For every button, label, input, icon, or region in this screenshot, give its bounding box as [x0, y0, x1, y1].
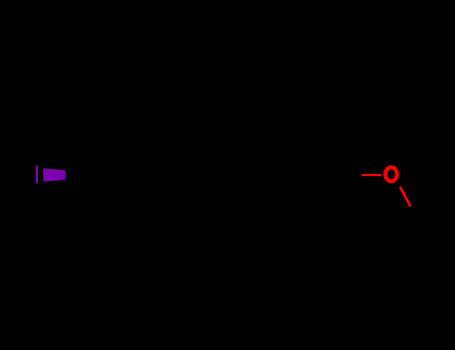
bond ring-O (oxygen half, red): [362, 174, 381, 176]
wedge bond C-I (iodine half, purple): [43, 168, 65, 182]
bond O-CH3 (oxygen half, red): [400, 187, 410, 207]
iodine atom label I: [36, 166, 38, 184]
oxygen atom label O: [385, 167, 397, 181]
